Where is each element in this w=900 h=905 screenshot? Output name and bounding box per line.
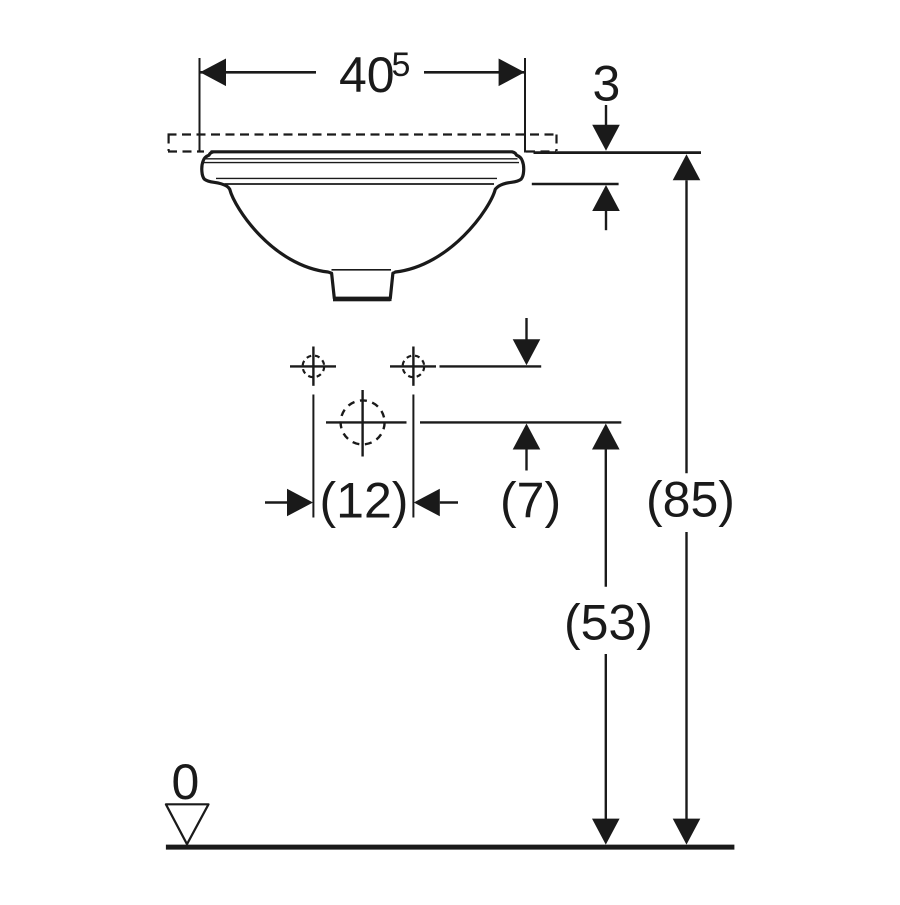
tap hole left cross horizontal	[290, 365, 336, 367]
basin rim inner line 1	[206, 158, 518, 160]
extension line below left tap hole	[312, 395, 314, 518]
extension line right (40.5 dim)	[524, 58, 526, 153]
floor line	[166, 845, 735, 850]
rim depth reference line	[532, 183, 619, 185]
label 3	[593, 56, 621, 112]
53 dim upper shaft	[605, 450, 607, 587]
svg-text:5: 5	[392, 46, 411, 84]
main hole dashed circle	[341, 400, 385, 444]
label (85)	[646, 472, 735, 528]
dimension line 40.5 left segment	[200, 71, 316, 74]
svg-text:3: 3	[593, 56, 621, 112]
dashed cutout left edge	[168, 135, 170, 152]
shaft below rim arrowhead	[605, 211, 607, 230]
drain bottom edge	[333, 298, 392, 301]
svg-text:(53): (53)	[564, 595, 653, 651]
tap hole right cross horizontal	[390, 365, 436, 367]
dashed cutout bottom-right segment	[526, 150, 556, 152]
shaft below up arrow (7 dim)	[525, 450, 527, 471]
arrowhead down to floor (53 dim)	[592, 819, 620, 845]
svg-text:(7): (7)	[500, 472, 561, 528]
countertop surface line right of basin	[534, 151, 702, 154]
shaft above down arrow (7 dim)	[525, 318, 527, 340]
tap hole left dashed circle	[303, 356, 325, 378]
arrowhead down to floor (85 dim)	[673, 819, 701, 845]
basin rim inner line 3	[216, 177, 497, 179]
leader shaft below 3	[605, 105, 607, 126]
basin outline	[202, 152, 524, 298]
svg-text:40: 40	[339, 47, 395, 103]
53 dim lower shaft	[605, 654, 607, 820]
basin rim inner line 2	[204, 162, 519, 164]
85 dim upper shaft	[685, 180, 687, 473]
extension line below right tap hole	[412, 395, 414, 518]
dimension line 40.5 right segment	[424, 71, 525, 74]
arrowhead down to tap hole line (7 dim)	[513, 339, 541, 365]
85 dim lower shaft	[685, 532, 687, 820]
dashed countertop cutout top line	[168, 133, 558, 135]
label superscript 5	[392, 46, 411, 84]
arrowhead down to countertop (3 dim)	[592, 125, 620, 151]
datum triangle	[166, 804, 209, 844]
main hole level line to right	[420, 421, 621, 423]
arrowhead left-pointing (12 dim)	[414, 489, 440, 517]
tap hole level line to right	[440, 365, 542, 367]
12 dim left shaft	[265, 501, 288, 503]
arrowhead up to main hole line (53 dim)	[592, 424, 620, 450]
arrowhead right (40.5)	[499, 59, 525, 87]
label 40	[339, 47, 395, 103]
tap hole left cross vertical	[312, 347, 314, 386]
dashed cutout right edge	[555, 135, 557, 152]
svg-text:(12): (12)	[320, 472, 409, 528]
basin rim bottom line	[225, 183, 495, 185]
12 dim right shaft	[440, 501, 458, 503]
label (7)	[500, 472, 561, 528]
arrowhead right-pointing (12 dim)	[287, 489, 313, 517]
arrowhead up to rim bottom line	[592, 185, 620, 211]
tap hole right cross vertical	[412, 347, 414, 386]
dashed cutout bottom-left segment	[168, 150, 204, 152]
label (12)	[320, 472, 409, 528]
svg-text:(85): (85)	[646, 472, 735, 528]
main hole cross horizontal	[326, 421, 407, 423]
arrowhead up to main hole line (7 dim)	[513, 424, 541, 450]
drain recess top line	[332, 269, 392, 271]
arrowhead up to countertop (85 dim)	[673, 154, 701, 180]
svg-text:0: 0	[172, 754, 200, 810]
label (53)	[564, 595, 653, 651]
tap hole right dashed circle	[403, 356, 425, 378]
main hole cross vertical	[361, 390, 363, 457]
drain bottom thick line	[333, 298, 390, 301]
label 0	[172, 754, 200, 810]
arrowhead left (40.5)	[200, 59, 226, 87]
extension line left (40.5 dim)	[199, 58, 201, 153]
